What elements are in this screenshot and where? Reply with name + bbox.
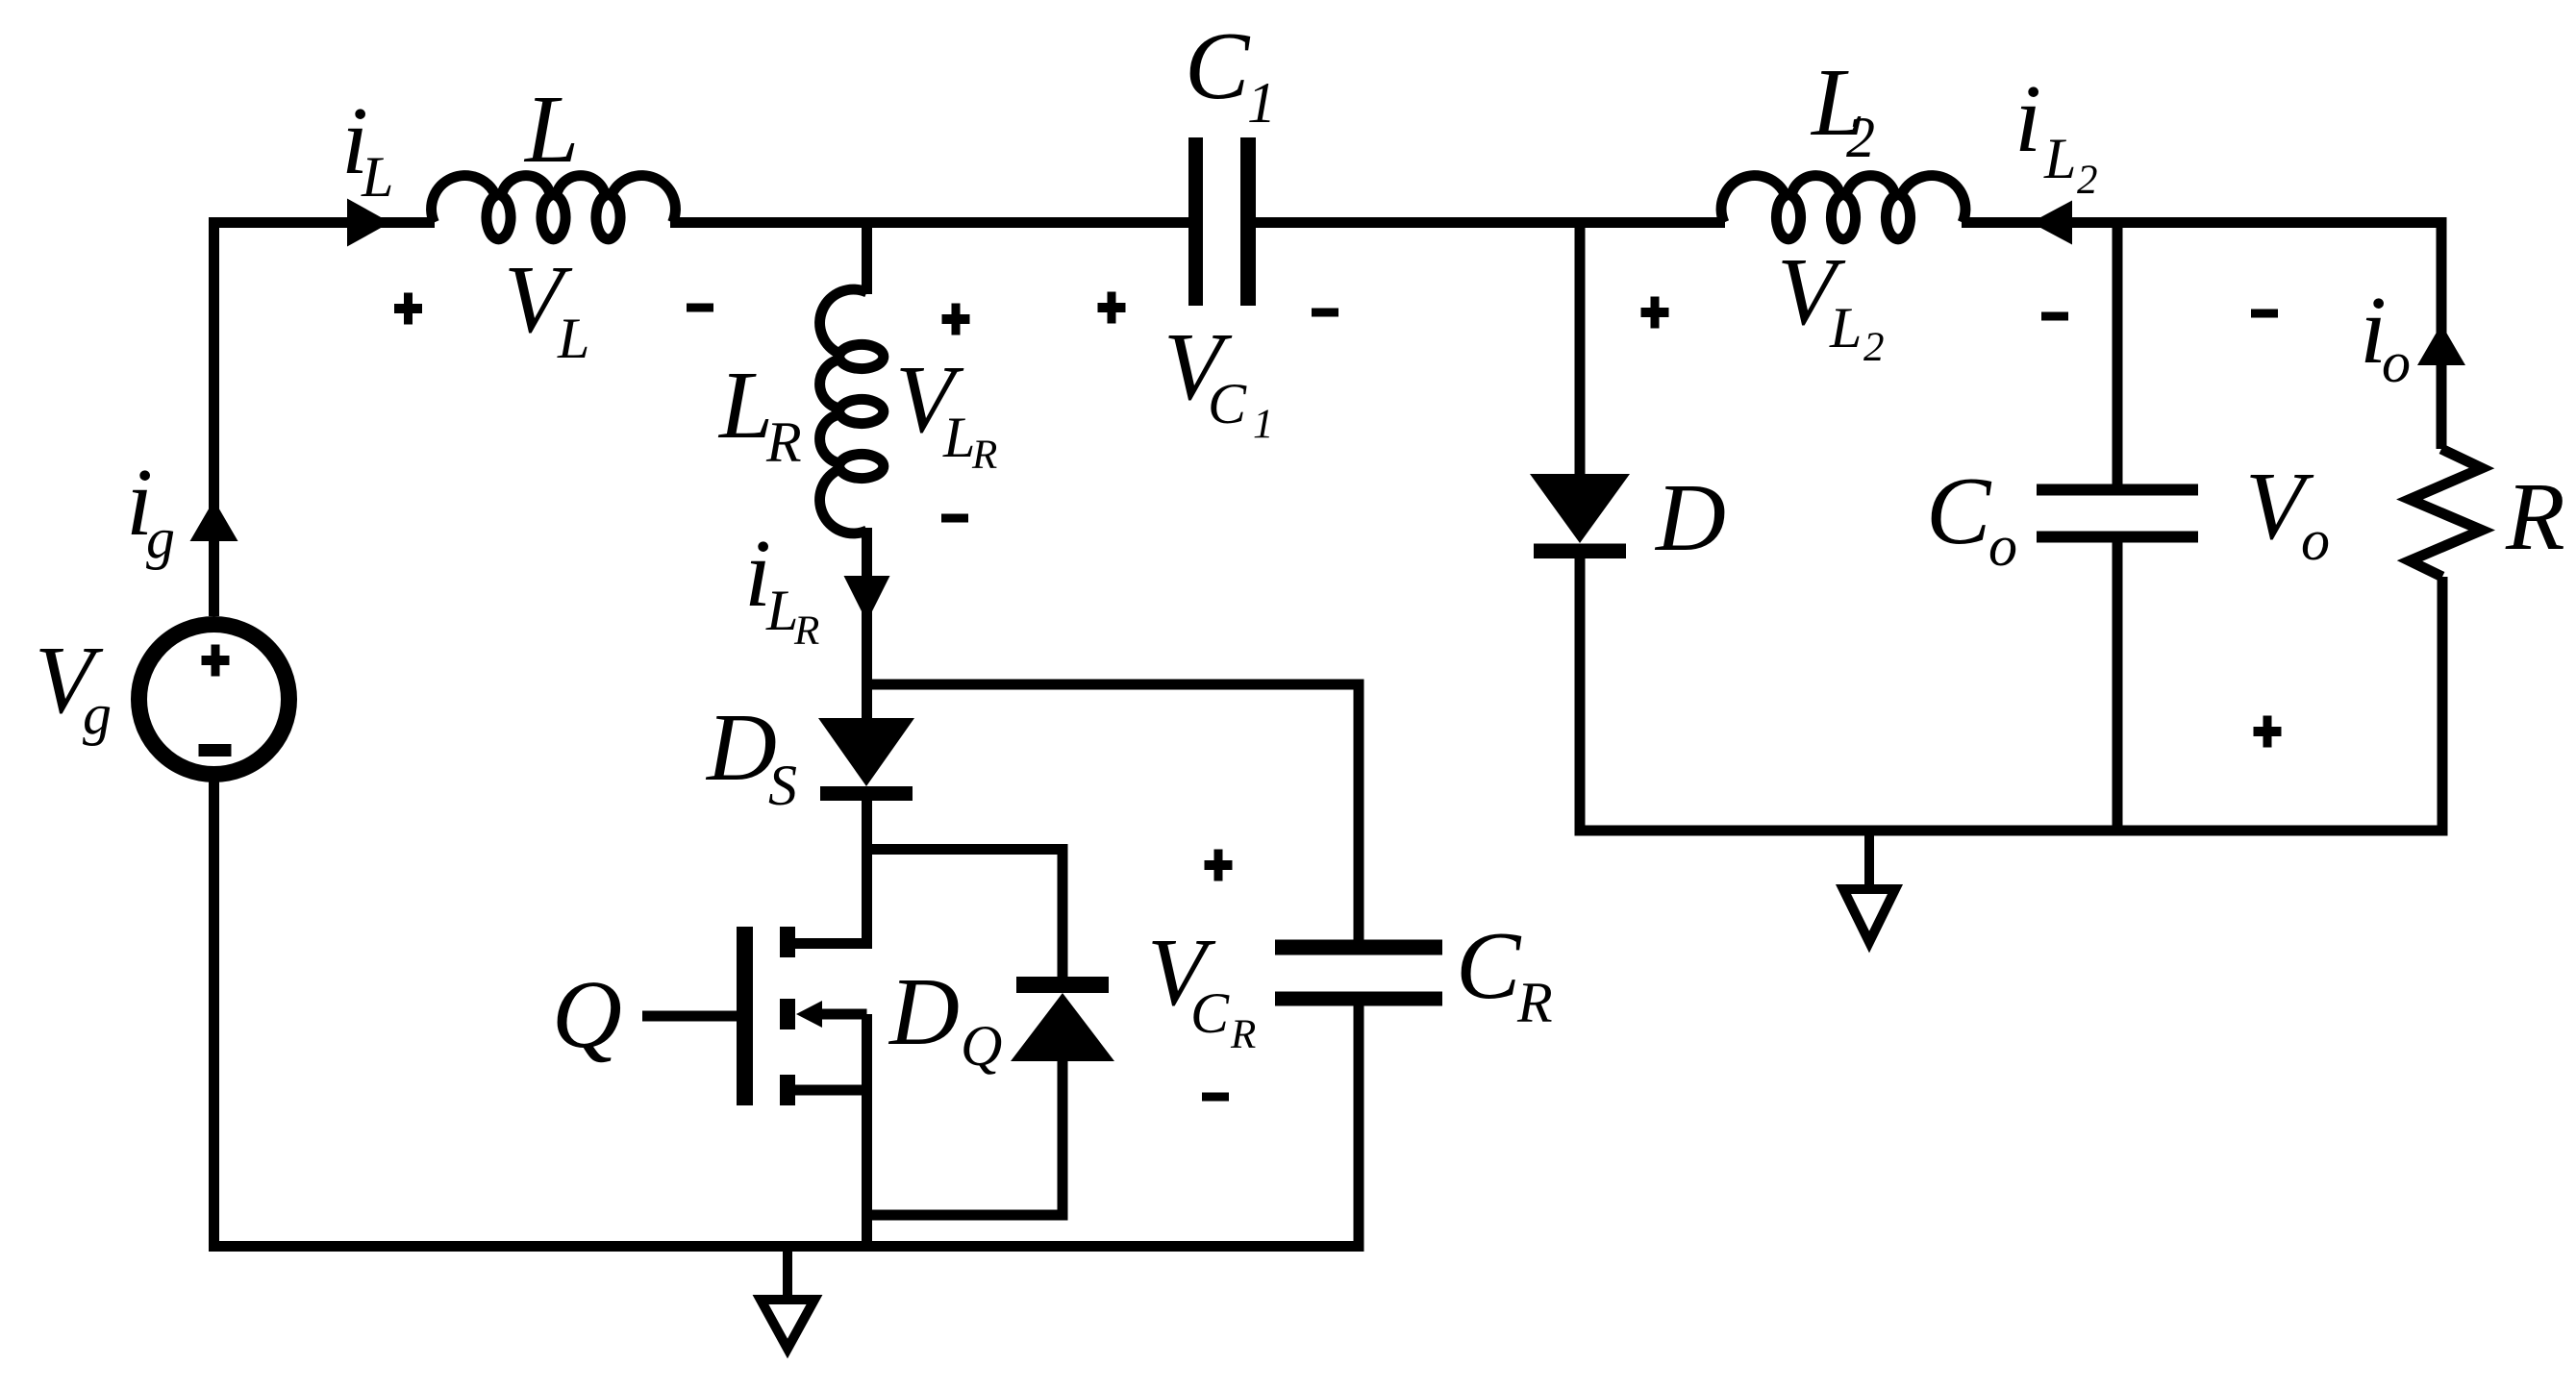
node i_L2 label [2014,64,2098,203]
wire DQ top tee from DS vertical [867,850,1063,981]
wire MOSFET source tick lead [795,1085,867,1096]
arrow i_g [190,500,238,541]
svg-text:L: L [557,307,589,370]
node V_C1 minus [1312,309,1338,317]
ground (output section) [1843,831,1895,942]
resistor R zigzag [2410,449,2482,577]
svg-text:L: L [1829,296,1862,360]
svg-text:2: 2 [1863,325,1885,370]
wire top rail segment 3 (C1 right plate to L2) [1254,217,1725,228]
svg-text:D: D [888,957,960,1065]
wire LR branch below coil to DS [862,528,872,720]
svg-text:R: R [2505,462,2565,570]
wire right wire upper (corner to R) [2437,217,2447,449]
wire Co branch lower stub [2113,541,2123,831]
wire D branch anode stub [1575,223,1586,477]
node C_1 label [1185,12,1276,135]
node V_g label [35,626,112,746]
diode D [1530,474,1630,558]
svg-text:2: 2 [1846,106,1875,169]
wire right wire lower (R to bottom-right corner) [2438,577,2448,836]
svg-text:L: L [717,351,773,459]
node V_o plus [2254,716,2282,748]
wire CR branch below cap to bottom rail [1354,1003,1364,1247]
svg-text:C: C [1456,911,1522,1019]
wire CR loop top [867,684,1360,943]
node V_CR minus [1202,1093,1229,1102]
svg-text:R: R [971,433,997,478]
node i_o label [2360,276,2411,394]
node V_L2 minus [2041,312,2068,321]
node C_R label [1456,911,1553,1034]
wire DQ anode bottom jog [867,1057,1063,1215]
node V_LR minus [941,514,968,523]
arrow i_o [2417,324,2465,365]
Vg plus [202,645,230,677]
node V_LR label [895,345,997,478]
capacitor CR [1275,940,1442,1006]
svg-text:g: g [83,682,112,746]
capacitor C1 [1188,137,1256,306]
svg-text:g: g [146,507,175,570]
arrow i_L2 [2031,201,2072,245]
svg-text:S: S [768,754,797,817]
svg-text:D: D [705,693,777,801]
inductor L [432,176,676,239]
arrow i_L [347,199,390,247]
wire MOSFET source vertical down to bottom rail [862,1014,872,1247]
wire DS cathode vertical to drain jog [788,801,867,944]
node V_CR plus [1205,850,1233,881]
svg-text:1: 1 [1253,402,1274,447]
node V_L2 label [1777,237,1885,370]
svg-text:D: D [1654,463,1726,571]
svg-text:L: L [523,75,579,183]
capacitor Co [2037,484,2198,543]
svg-text:Q: Q [961,1014,1002,1078]
node V_L minus [687,304,713,312]
svg-text:C: C [1208,372,1247,435]
node V_L plus [394,293,422,325]
Vg minus [199,744,232,757]
svg-text:R: R [793,608,819,654]
wire Q gate lead [642,1011,737,1022]
svg-text:R: R [1230,1012,1256,1057]
svg-text:L: L [2043,127,2076,190]
node V_o minus [2251,310,2278,318]
node V_L label [504,245,589,370]
wire MOSFET body lead to source vertical [815,1009,867,1020]
node L_R label [717,351,802,474]
svg-text:1: 1 [1247,71,1276,135]
wire D branch cathode to bottom-right rail [1575,558,1586,836]
node V_C1 label [1163,312,1274,447]
svg-text:Q: Q [552,960,622,1068]
source Vg circle [139,625,289,775]
svg-text:2: 2 [2077,158,2098,203]
node C_o label [1926,457,2017,578]
node V_C1 plus [1098,292,1126,324]
diode DS [818,718,914,801]
node V_LR plus [942,304,970,335]
diode DQ [1011,977,1114,1061]
svg-text:C: C [1185,12,1251,119]
arrow i_LR [844,576,890,622]
svg-text:o: o [1988,514,2017,578]
wire Co branch upper stub [2113,223,2123,486]
svg-text:L: L [361,145,393,209]
node L_2 label [1810,48,1875,169]
svg-text:R: R [765,410,802,474]
svg-text:i: i [2014,64,2041,172]
node V_o label [2245,452,2330,572]
node D_S label [705,693,797,817]
inductor L2 [1721,176,1965,239]
svg-text:R: R [1516,971,1553,1034]
svg-text:o: o [2382,331,2411,394]
node i_L label [341,87,393,209]
wire top rail segment 1 (left corner to L) [214,223,436,617]
wire left wire lower segment (Vg to bottom rail) [209,781,219,1252]
wire top rail segment 4 (L2 to top-right corner) [1962,217,2447,228]
node V_L2 plus [1641,297,1669,329]
node V_CR label [1147,918,1256,1057]
svg-text:C: C [1190,981,1230,1045]
ground (below MOSFET) [761,1247,814,1350]
svg-text:C: C [1926,457,1992,564]
wire bottom-left rail [209,1241,1364,1252]
node i_LR label [744,519,819,654]
svg-text:o: o [2301,508,2330,572]
node D_Q label [888,957,1002,1078]
transistor Q (MOSFET) [737,927,822,1105]
node i_g label [126,448,175,570]
svg-text:L: L [942,406,975,469]
inductor LR (vertical) [820,289,884,533]
wire top rail segment 2 (L to C1 left plate) [670,217,1190,228]
wire bottom-right rail [1575,826,2447,836]
wire LR branch upper stub [862,223,872,295]
